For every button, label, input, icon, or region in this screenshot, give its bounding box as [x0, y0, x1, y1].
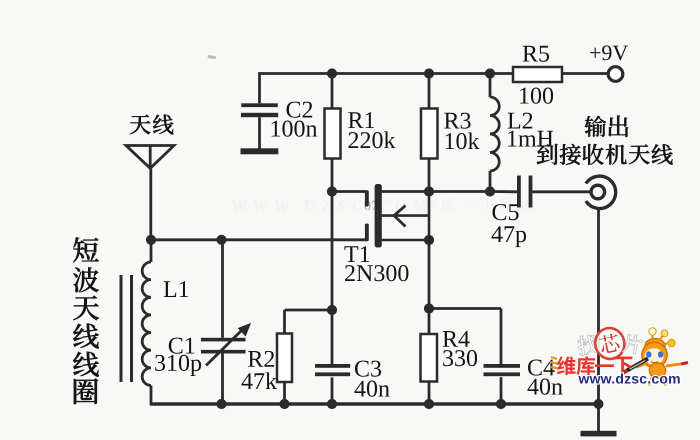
- node bottom-ground: [594, 399, 604, 409]
- label T1: [344, 242, 371, 268]
- svg-text:40n: 40n: [527, 375, 563, 401]
- wire L2 top: [489, 74, 492, 98]
- label L2: [507, 109, 534, 135]
- svg-text:100: 100: [518, 83, 554, 109]
- wire C4 horiz: [429, 307, 501, 310]
- wire C4 bottom: [500, 377, 503, 404]
- label 100n: [269, 117, 317, 143]
- node drain-left: [327, 186, 337, 196]
- node drain-L2: [485, 186, 495, 196]
- node bottom-R2: [279, 399, 289, 409]
- label R1: [347, 108, 375, 134]
- wire drain rail (R4 node to L2 node): [429, 190, 490, 193]
- svg-text:10k: 10k: [443, 129, 479, 155]
- wire L1 top: [150, 240, 153, 262]
- capacitor C1: [201, 338, 246, 354]
- node top-R3: [424, 68, 434, 78]
- label 40n (C4 value): [527, 375, 563, 401]
- label L1: [163, 277, 190, 303]
- svg-text:1mH: 1mH: [506, 127, 554, 153]
- label 220k: [347, 128, 395, 154]
- label 10k: [443, 129, 479, 155]
- wire antenna down: [149, 166, 152, 240]
- wire drain rail (T1 to R4 node): [382, 190, 430, 193]
- node bottom-R4: [424, 399, 434, 409]
- watermark faint band: [232, 198, 535, 215]
- label 40n (C3 value): [354, 377, 390, 403]
- node tank-C1: [216, 235, 226, 245]
- wire drain rail (L2 node to C5): [490, 190, 517, 193]
- speck: [208, 55, 216, 59]
- label 330: [442, 346, 478, 372]
- label R2: [247, 347, 275, 373]
- node tank-antenna: [146, 235, 156, 245]
- wire jack down: [597, 209, 600, 404]
- label C1: [168, 334, 196, 360]
- label C3: [354, 357, 382, 383]
- +9V terminal: [608, 67, 623, 82]
- watermark logo 找芯片/维库一下/www.dzsc.com: [550, 325, 688, 386]
- svg-text:40n: 40n: [354, 377, 390, 403]
- wire R1 top: [331, 74, 334, 109]
- svg-text:R5: R5: [522, 41, 550, 67]
- label 47p: [491, 222, 527, 248]
- label R3: [443, 109, 471, 135]
- wire C2 top: [258, 72, 261, 103]
- wire L2 bottom: [489, 171, 492, 192]
- capacitor C5: [517, 176, 532, 208]
- capacitor C2: [241, 103, 278, 117]
- wire C2 bottom: [258, 117, 261, 148]
- svg-text:47p: 47p: [491, 222, 527, 248]
- wire rail-332 (drain node to R2 node): [331, 192, 334, 309]
- L1 core lines: [121, 275, 132, 382]
- svg-text:100n: 100n: [269, 117, 317, 143]
- svg-text:310p: 310p: [154, 351, 202, 377]
- label C5: [491, 200, 519, 226]
- node R2-rail junction: [327, 305, 337, 315]
- wire C3 bottom: [331, 377, 334, 404]
- label 到接收机天线: [537, 144, 673, 165]
- wire R3 bottom: [428, 159, 431, 192]
- svg-text:220k: 220k: [347, 128, 395, 154]
- node bottom-C4: [496, 399, 506, 409]
- wire rail-332 (R2 node to C3): [331, 309, 334, 365]
- wire top rail right (R5 to +9V): [562, 72, 609, 75]
- wire tank rail y240: [151, 238, 367, 241]
- ground: [581, 404, 617, 436]
- svg-text:47k: 47k: [241, 369, 277, 395]
- output jack: [586, 176, 616, 208]
- wire drain rail (R1 node to gate1): [332, 190, 367, 193]
- wire bottom rail: [151, 402, 601, 406]
- resistor R3: [421, 109, 438, 159]
- wire C1 bottom: [221, 354, 224, 405]
- inductor L2: [490, 97, 499, 171]
- label 输出: [585, 116, 629, 137]
- wire C5 to jack: [532, 190, 591, 193]
- label 天线: [130, 115, 174, 135]
- resistor R5: [513, 67, 562, 82]
- node T1 source: [424, 235, 434, 245]
- wire R2 bottom: [283, 382, 286, 404]
- svg-text:L1: L1: [163, 277, 190, 303]
- resistor R4: [421, 334, 438, 382]
- wire top rail left: [260, 72, 514, 75]
- label 短波天线线圈: [73, 237, 99, 404]
- node R4-C4 junction: [424, 303, 434, 313]
- resistor R1: [325, 109, 341, 159]
- wire R3 top: [428, 74, 431, 109]
- wire R2 horiz: [285, 309, 333, 312]
- node bottom-C1: [216, 399, 226, 409]
- resistor R2: [277, 334, 292, 383]
- wire C1 top: [221, 240, 224, 338]
- node drain-right: [424, 186, 434, 196]
- wire R1 bottom: [331, 159, 334, 192]
- label R4: [442, 327, 470, 353]
- label +9V: [589, 40, 628, 65]
- label R5: [522, 41, 550, 67]
- wire R2 top: [283, 310, 286, 334]
- inductor L1: [142, 262, 151, 386]
- label C2: [285, 98, 313, 124]
- label 1mH: [506, 127, 554, 153]
- wire R4 bottom: [428, 382, 431, 405]
- svg-text:2N300: 2N300: [344, 261, 409, 287]
- C1 arrow: [206, 324, 250, 365]
- antenna: [126, 146, 174, 169]
- node top-R1: [327, 68, 337, 78]
- label 310p: [154, 351, 202, 377]
- capacitor C4: [484, 364, 521, 376]
- transistor T1: [365, 184, 429, 248]
- label 2N300: [344, 261, 409, 287]
- wire R4 top: [428, 240, 431, 334]
- label C4: [527, 355, 555, 381]
- C2 bottom bar: [241, 148, 279, 154]
- svg-text:www.dzsc.com: www.dzsc.com: [578, 371, 681, 387]
- svg-text:330: 330: [442, 346, 478, 372]
- capacitor C3: [315, 364, 350, 376]
- wire L1 bottom: [150, 386, 153, 406]
- label 100 (R5 value): [518, 83, 554, 109]
- node bottom-C3: [327, 399, 337, 409]
- node top-L2: [485, 68, 495, 78]
- svg-text:+9V: +9V: [589, 40, 628, 65]
- label 47k: [241, 369, 277, 395]
- wire C4 top: [500, 309, 503, 365]
